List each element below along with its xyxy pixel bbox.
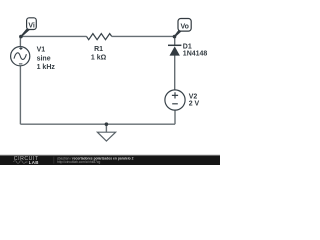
node flag Vo tail — [174, 30, 182, 37]
svg-text:1N4148: 1N4148 — [183, 51, 208, 58]
svg-text:2 V: 2 V — [189, 101, 200, 108]
svg-text:sine: sine — [37, 55, 51, 62]
junction dot node Vi — [19, 35, 23, 39]
V1 plus mark — [19, 47, 22, 50]
wire V2 bottom lead to bottom rail — [174, 110, 176, 124]
ground symbol — [105, 124, 107, 132]
diode D1 triangle (anode, pointing up) — [170, 46, 180, 55]
voltage source V2 circle — [165, 90, 185, 110]
svg-text:R1: R1 — [94, 46, 103, 53]
wire top rail right (R1 to node Vo) — [112, 35, 175, 37]
svg-text:1 kHz: 1 kHz — [37, 64, 56, 71]
svg-text:LAB: LAB — [29, 160, 39, 165]
voltage source V1 circle — [11, 47, 30, 66]
node flag Vo box — [178, 19, 191, 32]
V2 plus mark — [172, 92, 178, 98]
svg-text:http://circuitlab.com/c/xhk87c: http://circuitlab.com/c/xhk87cg — [57, 160, 101, 164]
V1 sine symbol — [14, 53, 26, 60]
junction dot ground node — [105, 122, 109, 126]
wire Vo node to D1 cathode — [174, 36, 176, 45]
V1 minus mark — [19, 63, 23, 65]
wire V1 top lead — [19, 36, 21, 46]
wire D1 anode to V2 top — [174, 56, 176, 91]
CircuitLab logo sine squiggle — [14, 161, 28, 164]
diode D1 cathode bar — [168, 44, 181, 46]
watermark bar — [0, 156, 220, 166]
svg-text:D1: D1 — [183, 44, 192, 51]
watermark separator — [53, 157, 56, 164]
resistor R1 zigzag — [87, 34, 112, 40]
svg-text:1 kΩ: 1 kΩ — [91, 55, 107, 62]
watermark bar top border — [0, 154, 220, 157]
wire V1 bottom lead down to ground rail — [19, 66, 21, 125]
wire top rail left (node Vi to R1) — [20, 35, 86, 37]
svg-text:V1: V1 — [37, 46, 46, 53]
V2 minus mark — [172, 103, 178, 105]
junction dot node Vo — [173, 35, 177, 39]
node flag Vi box — [27, 18, 37, 30]
svg-text:Vo: Vo — [180, 23, 188, 30]
svg-text:Vi: Vi — [28, 22, 35, 29]
wire bottom rail — [20, 123, 175, 125]
node flag Vi tail — [21, 28, 30, 37]
